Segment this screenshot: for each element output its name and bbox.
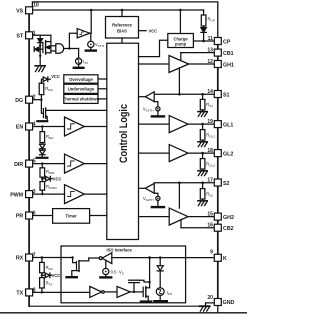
driver U3 GH1 bbox=[169, 56, 189, 73]
svg-text:PR: PR bbox=[16, 214, 24, 220]
svg-text:Thermal shutdown: Thermal shutdown bbox=[63, 96, 100, 101]
wire thermal out bbox=[98, 98, 107, 100]
wire overvoltage out bbox=[98, 78, 107, 80]
svg-text:S2: S2 bbox=[223, 181, 230, 187]
wire K node riser bbox=[149, 258, 151, 288]
control logic box bbox=[107, 43, 139, 239]
buffer PWM bbox=[65, 185, 85, 204]
ground IST bbox=[74, 67, 84, 69]
RX pin wire bbox=[33, 257, 73, 259]
zener diode ST gate clamp bbox=[33, 47, 35, 52]
svg-text:15: 15 bbox=[207, 211, 213, 217]
transistor M1 bbox=[42, 42, 44, 52]
ground RS2 hatch bbox=[198, 200, 207, 202]
transistor M4 k driver bbox=[142, 287, 144, 296]
inverter U2 bbox=[77, 29, 90, 38]
svg-text:19: 19 bbox=[207, 119, 213, 125]
resistor RCP bbox=[201, 15, 206, 26]
pin K bbox=[214, 254, 221, 261]
junction dots S1 bbox=[178, 93, 181, 96]
wire M2 source bbox=[46, 116, 48, 119]
source VSTH bbox=[88, 41, 94, 47]
ground M4 bbox=[141, 300, 151, 302]
wire M2 drain to logic bbox=[46, 109, 107, 111]
ground half VS bbox=[100, 276, 111, 278]
pin CB2 bbox=[214, 224, 221, 231]
svg-text:K: K bbox=[223, 256, 227, 262]
pin GH1 bbox=[214, 61, 221, 68]
figure bottom rule bbox=[0, 312, 247, 314]
ground VS1TH bbox=[152, 115, 164, 117]
wire GH2 row bbox=[188, 216, 214, 218]
buffer DIR bbox=[65, 154, 85, 173]
source VS2TH bbox=[154, 193, 158, 196]
ground EN bbox=[37, 157, 48, 159]
svg-text:Overvoltage: Overvoltage bbox=[69, 77, 93, 82]
ground RGL2 hatch bbox=[198, 170, 207, 172]
ST pin wire bbox=[33, 34, 51, 36]
wire S1 row bbox=[154, 93, 214, 95]
gate G1 bbox=[56, 44, 64, 53]
block thermal shutdown bbox=[64, 94, 98, 103]
pin GH2 bbox=[214, 213, 221, 220]
wire VS supply rail bbox=[33, 9, 204, 11]
transistor M1 gate wire bbox=[40, 48, 43, 50]
svg-text:CB1: CB1 bbox=[223, 51, 234, 57]
wire inverter out to rail bbox=[90, 10, 91, 33]
svg-text:GH1: GH1 bbox=[223, 62, 234, 68]
ground M3 bbox=[67, 276, 77, 278]
pin S2 bbox=[214, 179, 221, 186]
junction dots S2 bbox=[178, 182, 181, 185]
pin RX bbox=[26, 254, 33, 261]
pin GL1 bbox=[214, 121, 221, 128]
junction dot CP bbox=[202, 40, 205, 43]
wire M1 drain column bbox=[50, 35, 52, 53]
wire DG gate bbox=[41, 100, 43, 114]
svg-text:BIAS: BIAS bbox=[117, 29, 127, 34]
wire rail drop to RCP bbox=[203, 10, 205, 15]
wire comparator out bbox=[89, 257, 99, 259]
wire GND pin stub down bbox=[217, 305, 219, 313]
wire VS to CP top rail bbox=[32, 2, 217, 38]
wire logic to charge pump bbox=[139, 40, 168, 56]
source half VS bbox=[105, 260, 107, 268]
pin DG bbox=[26, 96, 33, 103]
junction dot EN bbox=[41, 125, 43, 127]
svg-text:DG: DG bbox=[15, 98, 23, 104]
wire CB2 row bbox=[181, 227, 214, 229]
junction dots VS rail bbox=[90, 9, 93, 12]
driver U5 GL1 bbox=[169, 116, 188, 133]
pin PWM bbox=[26, 191, 33, 198]
wire driver2 input bbox=[139, 123, 170, 125]
junction dots DIR PWM bbox=[41, 162, 43, 164]
svg-text:ST: ST bbox=[16, 34, 24, 40]
svg-text:RX: RX bbox=[16, 256, 24, 262]
junction dots ST bbox=[39, 44, 41, 46]
wire GL2 row bbox=[188, 152, 214, 154]
wire RCP to diode bbox=[203, 26, 205, 28]
svg-text:9: 9 bbox=[210, 249, 213, 255]
inverter U10 bbox=[90, 286, 102, 297]
PWM pin wire bbox=[33, 193, 65, 195]
svg-text:Reference: Reference bbox=[112, 23, 133, 28]
svg-text:3: 3 bbox=[33, 189, 36, 195]
buffer EN bbox=[65, 117, 85, 136]
svg-text:7: 7 bbox=[33, 253, 36, 259]
resistor RDG bbox=[39, 83, 44, 94]
chip left border bbox=[28, 14, 30, 307]
pin S1 bbox=[214, 91, 221, 98]
wire driver4 input bbox=[139, 216, 170, 218]
svg-text:GL2: GL2 bbox=[223, 151, 233, 157]
svg-text:18: 18 bbox=[207, 148, 213, 154]
ground RGL1 hatch bbox=[198, 141, 207, 143]
diode DCP bbox=[201, 28, 206, 32]
svg-text:8: 8 bbox=[33, 287, 36, 293]
wire GND pin to ground bbox=[206, 303, 215, 306]
junction dot GL1 bbox=[201, 123, 204, 126]
chip bottom border bbox=[29, 305, 200, 307]
svg-text:VCC: VCC bbox=[52, 273, 61, 278]
svg-text:2: 2 bbox=[33, 95, 36, 101]
svg-text:14: 14 bbox=[207, 89, 213, 95]
diode DMID to VCC bbox=[46, 176, 50, 181]
TX pin wire bbox=[33, 291, 90, 293]
pin VS bbox=[26, 7, 33, 14]
svg-text:pump: pump bbox=[175, 42, 187, 47]
wire CB1 row bbox=[181, 52, 215, 54]
diode DEN1 bbox=[40, 144, 46, 148]
svg-text:10: 10 bbox=[33, 2, 39, 8]
svg-text:20: 20 bbox=[207, 295, 213, 301]
wire GL1 row bbox=[188, 123, 214, 125]
svg-text:12: 12 bbox=[207, 59, 213, 65]
resistor RRX bbox=[40, 262, 45, 272]
svg-text:11: 11 bbox=[208, 36, 214, 42]
wire CP row bbox=[193, 40, 214, 42]
svg-text:PWM: PWM bbox=[10, 192, 24, 198]
transistor M3 rx pulldown bbox=[73, 258, 76, 263]
reference bias box bbox=[106, 17, 139, 39]
wire IST top bbox=[78, 64, 80, 67]
svg-text:Control Logic: Control Logic bbox=[118, 104, 130, 163]
ground IKH bbox=[154, 300, 166, 302]
wire charge pump to rail bbox=[179, 10, 181, 34]
ground M2 bbox=[37, 120, 47, 122]
svg-text:5: 5 bbox=[33, 159, 36, 165]
wire driver1 to S1 bbox=[178, 68, 180, 94]
wire GH1 row bbox=[189, 63, 215, 65]
wire S2 to driver4 bbox=[178, 183, 180, 208]
ground GND pin bbox=[200, 305, 210, 307]
wire U10 to U11 bbox=[104, 291, 117, 293]
pin PR bbox=[26, 212, 33, 219]
resistor RPWM bbox=[40, 182, 45, 191]
wire U11 out bbox=[130, 291, 142, 293]
wire to inverter input bbox=[69, 33, 77, 48]
wire diode to CP node bbox=[203, 32, 205, 41]
wire RDG to VCC diode bbox=[41, 79, 43, 83]
current source IST bbox=[76, 58, 82, 64]
svg-text:ISO interface: ISO interface bbox=[107, 247, 133, 252]
ground VS2TH bbox=[152, 206, 164, 208]
wire K diode branch bbox=[159, 258, 161, 266]
pin GL2 bbox=[214, 150, 221, 157]
svg-text:VCC: VCC bbox=[53, 176, 62, 181]
resistor RDIR bbox=[40, 168, 45, 177]
comparator U7 bbox=[145, 183, 154, 193]
current source IKH bbox=[156, 288, 164, 296]
svg-text:4: 4 bbox=[33, 122, 36, 128]
svg-text:CP: CP bbox=[223, 39, 231, 45]
PR pin wire bbox=[33, 215, 53, 217]
capacitor CK bbox=[129, 279, 140, 281]
diode DEN2 bbox=[40, 150, 46, 154]
svg-text:VCC: VCC bbox=[149, 29, 158, 34]
diode DRT to VCC bbox=[45, 273, 49, 278]
pin DIR bbox=[26, 160, 33, 167]
ground VSTH bbox=[86, 49, 96, 51]
wire ref bias to rail bbox=[121, 10, 123, 17]
wire ST drop bbox=[39, 35, 41, 66]
driver U8 GH2 bbox=[169, 208, 188, 225]
wire CB2 riser bbox=[180, 219, 182, 227]
resistor RS1 bbox=[202, 94, 204, 99]
block overvoltage bbox=[64, 75, 98, 83]
diode DK bbox=[157, 266, 163, 271]
wire timer out bbox=[90, 215, 107, 217]
wire EN buffer out bbox=[84, 126, 107, 128]
svg-text:CB2: CB2 bbox=[223, 226, 234, 232]
resistor REN bbox=[40, 132, 45, 143]
junction dots K line bbox=[148, 256, 151, 259]
svg-text:1: 1 bbox=[33, 30, 36, 36]
wire comparator input bbox=[112, 257, 150, 259]
svg-text:16: 16 bbox=[207, 223, 213, 229]
junction dots RX TX bbox=[41, 256, 43, 258]
svg-text:VCC: VCC bbox=[51, 74, 60, 79]
svg-text:Undervoltage: Undervoltage bbox=[68, 86, 95, 91]
wire ref bias VCC stub bbox=[139, 30, 147, 32]
driver U6 GL2 bbox=[169, 145, 188, 162]
svg-text:VS: VS bbox=[16, 9, 24, 15]
wire S2 row bbox=[154, 182, 214, 184]
resistor RS2 bbox=[202, 183, 204, 189]
diode DDG to VCC bbox=[43, 77, 47, 82]
DG pin wire bbox=[33, 99, 42, 101]
chip right border bbox=[217, 45, 219, 299]
timer box bbox=[53, 209, 90, 224]
pin CB1 bbox=[214, 49, 221, 56]
wire driver1 input bbox=[139, 63, 170, 65]
charge pump box bbox=[168, 34, 194, 48]
comparator U4 bbox=[145, 92, 154, 102]
wire PWM buffer out bbox=[84, 193, 107, 195]
wire ref bias to control logic bbox=[121, 38, 123, 43]
ground ST hatch bbox=[35, 65, 45, 67]
wire CB1 riser to driver bbox=[180, 53, 182, 61]
source VS1TH bbox=[154, 102, 158, 107]
svg-text:Timer: Timer bbox=[66, 214, 77, 219]
DIR pin wire bbox=[33, 163, 65, 165]
svg-text:6: 6 bbox=[33, 211, 36, 217]
svg-text:17: 17 bbox=[207, 177, 213, 183]
ground RS1 hatch bbox=[198, 111, 207, 113]
wire to IST bbox=[78, 49, 80, 59]
comparator U9 bbox=[102, 253, 112, 264]
svg-text:GND: GND bbox=[223, 300, 235, 306]
pin TX bbox=[26, 289, 33, 296]
resistor RGL1 bbox=[202, 124, 204, 130]
svg-text:13: 13 bbox=[207, 47, 213, 53]
svg-text:EN: EN bbox=[16, 125, 24, 131]
junction dot DG bbox=[40, 99, 42, 101]
svg-text:GH2: GH2 bbox=[223, 215, 234, 221]
resistor RTX bbox=[40, 278, 45, 288]
wire G1 output bbox=[64, 48, 79, 50]
pin EN bbox=[26, 123, 33, 130]
pin GND bbox=[214, 299, 221, 306]
block undervoltage bbox=[64, 84, 98, 93]
junction dot GL2 bbox=[201, 152, 204, 155]
buffer U11 bbox=[117, 286, 130, 297]
diode ST series bbox=[38, 39, 43, 43]
wire driver3 input bbox=[139, 152, 170, 154]
wire undervoltage out bbox=[98, 88, 107, 90]
EN pin wire bbox=[33, 126, 65, 128]
resistor RGL2 bbox=[202, 153, 204, 159]
svg-text:GL1: GL1 bbox=[223, 122, 233, 128]
svg-text:TX: TX bbox=[16, 291, 23, 297]
svg-text:S1: S1 bbox=[223, 92, 230, 98]
wire K row bbox=[150, 257, 215, 259]
ISO interface box bbox=[61, 246, 186, 303]
transistor M2 bbox=[42, 109, 44, 118]
svg-text:DIR: DIR bbox=[14, 162, 23, 168]
pin ST bbox=[26, 32, 33, 39]
wire DIR buffer out bbox=[84, 163, 107, 165]
pin CP bbox=[214, 38, 221, 45]
